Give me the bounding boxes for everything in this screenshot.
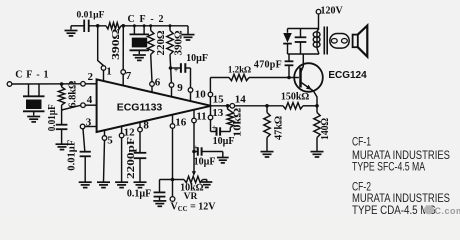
svg-text:VR: VR — [184, 192, 198, 202]
svg-text:0.01µF: 0.01µF — [77, 11, 105, 21]
svg-text:7: 7 — [126, 70, 132, 82]
svg-text:140Ω: 140Ω — [320, 118, 331, 140]
svg-text:1.2kΩ: 1.2kΩ — [228, 65, 251, 75]
svg-text:6: 6 — [155, 77, 161, 89]
svg-text:4: 4 — [87, 94, 93, 106]
svg-text:TYPE SFC-4.5 MA: TYPE SFC-4.5 MA — [352, 159, 425, 173]
svg-text:9: 9 — [177, 82, 183, 94]
svg-text:5: 5 — [107, 135, 113, 147]
svg-text:TYPE CDA-4.5 MG: TYPE CDA-4.5 MG — [352, 203, 436, 216]
svg-text:6.8kΩ: 6.8kΩ — [68, 81, 79, 108]
svg-text:10µF: 10µF — [186, 53, 208, 64]
svg-text:8: 8 — [143, 120, 149, 132]
svg-text:+: + — [194, 143, 199, 152]
svg-text:13: 13 — [212, 107, 224, 119]
svg-text:+: + — [212, 124, 217, 133]
svg-text:12: 12 — [124, 127, 136, 139]
svg-text:ECG1133: ECG1133 — [117, 101, 163, 113]
svg-text:1: 1 — [106, 66, 112, 78]
svg-text:14: 14 — [235, 93, 247, 105]
svg-text:150kΩ: 150kΩ — [281, 92, 310, 103]
svg-text:16: 16 — [175, 117, 187, 129]
svg-text:0.01µF: 0.01µF — [47, 104, 58, 131]
svg-text:CF-1: CF-1 — [352, 135, 371, 149]
svg-text:120V: 120V — [321, 5, 344, 16]
svg-text:CF-1: CF-1 — [15, 70, 52, 81]
svg-text:2: 2 — [88, 71, 94, 83]
svg-text:15: 15 — [213, 93, 225, 105]
svg-text:390Ω: 390Ω — [174, 31, 185, 56]
svg-text:47kΩ: 47kΩ — [273, 116, 284, 140]
svg-text:VCC = 12V: VCC = 12V — [171, 202, 217, 214]
svg-text:10µF: 10µF — [213, 136, 235, 147]
svg-text:2200pF: 2200pF — [126, 137, 137, 179]
svg-text:3: 3 — [86, 116, 92, 128]
svg-text:ECG124: ECG124 — [328, 70, 367, 81]
svg-text:10kΩ: 10kΩ — [232, 108, 243, 137]
svg-text:C.com: C.com — [435, 206, 460, 216]
svg-text:470pF: 470pF — [254, 60, 282, 71]
svg-text:10: 10 — [195, 88, 207, 100]
svg-text:220Ω: 220Ω — [156, 31, 167, 56]
svg-text:10µF: 10µF — [194, 157, 216, 168]
svg-text:0.01µF: 0.01µF — [67, 140, 78, 171]
svg-text:CF-2: CF-2 — [128, 14, 169, 25]
svg-text:11: 11 — [196, 111, 206, 123]
svg-text:+: + — [174, 66, 179, 75]
svg-text:390Ω: 390Ω — [111, 29, 122, 60]
svg-text:0.1µF: 0.1µF — [127, 189, 151, 200]
